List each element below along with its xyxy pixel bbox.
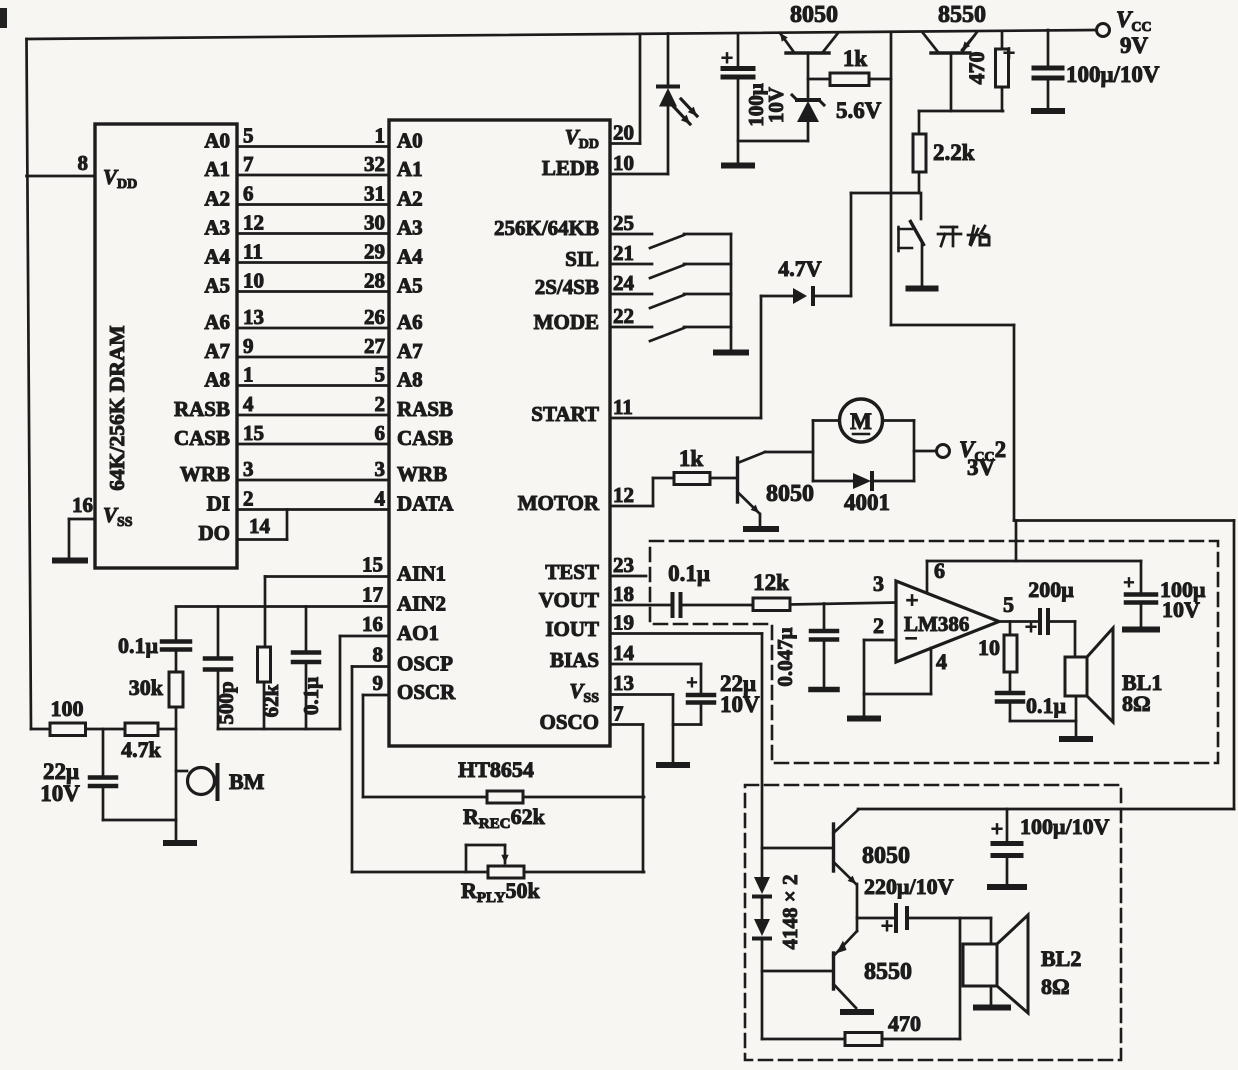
svg-text:3: 3 [873, 571, 884, 596]
svg-text:A3: A3 [397, 216, 423, 240]
svg-text:+: + [721, 45, 734, 70]
svg-text:12: 12 [243, 211, 264, 235]
svg-text:5.6V: 5.6V [836, 98, 882, 123]
svg-text:30k: 30k [129, 675, 164, 700]
svg-text:2: 2 [243, 487, 254, 511]
svg-text:A6: A6 [204, 310, 230, 334]
svg-text:4001: 4001 [844, 490, 890, 515]
svg-text:13: 13 [243, 305, 264, 329]
svg-text:4.7k: 4.7k [121, 737, 162, 762]
svg-text:A2: A2 [204, 187, 230, 211]
svg-text:A5: A5 [204, 274, 230, 298]
svg-text:A2: A2 [397, 187, 423, 211]
svg-text:+: + [1123, 572, 1134, 594]
svg-text:A4: A4 [204, 245, 230, 269]
svg-text:3V: 3V [967, 455, 996, 480]
svg-text:13: 13 [613, 671, 634, 695]
svg-text:28: 28 [364, 269, 385, 293]
svg-text:+: + [881, 913, 894, 938]
svg-text:SIL: SIL [565, 247, 599, 271]
svg-text:32: 32 [364, 152, 385, 176]
svg-text:10: 10 [613, 151, 634, 175]
svg-text:500p: 500p [214, 681, 238, 724]
svg-text:27: 27 [364, 334, 385, 358]
svg-text:2: 2 [873, 613, 884, 638]
svg-text:22: 22 [613, 304, 634, 328]
svg-text:30: 30 [364, 211, 385, 235]
svg-text:A7: A7 [397, 339, 423, 363]
svg-text:CASB: CASB [397, 426, 453, 450]
svg-text:HT8654: HT8654 [458, 757, 534, 782]
svg-text:+: + [686, 672, 697, 694]
svg-text:12k: 12k [753, 570, 789, 595]
svg-text:A7: A7 [204, 339, 230, 363]
svg-text:11: 11 [613, 395, 633, 419]
svg-text:BM: BM [229, 769, 265, 794]
svg-text:256K/64KB: 256K/64KB [494, 216, 599, 240]
svg-text:11: 11 [243, 240, 263, 264]
svg-text:29: 29 [364, 240, 385, 264]
svg-text:8550: 8550 [938, 2, 986, 28]
svg-text:17: 17 [362, 583, 383, 607]
svg-text:+: + [1025, 614, 1038, 639]
svg-text:1: 1 [243, 363, 254, 387]
svg-text:10: 10 [243, 269, 264, 293]
svg-text:AIN1: AIN1 [397, 562, 446, 586]
svg-text:OSCP: OSCP [397, 652, 453, 676]
svg-text:9: 9 [243, 334, 254, 358]
svg-text:LEDB: LEDB [542, 156, 599, 180]
svg-text:START: START [531, 402, 599, 426]
svg-text:10V: 10V [764, 87, 788, 123]
svg-text:TEST: TEST [545, 560, 599, 584]
svg-text:100μ/10V: 100μ/10V [1020, 814, 1110, 839]
svg-text:8050: 8050 [862, 843, 910, 869]
svg-text:A3: A3 [204, 216, 230, 240]
svg-text:8Ω: 8Ω [1041, 974, 1070, 999]
svg-text:DI: DI [207, 492, 230, 516]
svg-text:19: 19 [613, 611, 634, 635]
svg-text:1k: 1k [679, 446, 704, 471]
svg-text:4: 4 [936, 649, 947, 674]
svg-text:BL2: BL2 [1041, 946, 1081, 971]
svg-text:IOUT: IOUT [545, 617, 599, 641]
svg-text:DO: DO [199, 521, 231, 545]
svg-text:8Ω: 8Ω [1122, 691, 1151, 716]
svg-text:18: 18 [613, 582, 634, 606]
svg-text:4148 × 2: 4148 × 2 [778, 875, 802, 950]
svg-text:0.1μ: 0.1μ [118, 633, 159, 658]
svg-text:A0: A0 [397, 129, 423, 153]
svg-text:7: 7 [613, 702, 624, 726]
svg-text:A1: A1 [397, 157, 423, 181]
svg-text:220μ/10V: 220μ/10V [864, 874, 954, 899]
svg-text:DATA: DATA [397, 492, 454, 516]
svg-text:64K/256K DRAM: 64K/256K DRAM [105, 325, 129, 490]
svg-text:6: 6 [243, 182, 254, 206]
svg-text:9V: 9V [1120, 33, 1149, 58]
svg-text:62k: 62k [259, 684, 283, 717]
svg-text:2S/4SB: 2S/4SB [535, 275, 599, 299]
svg-text:23: 23 [613, 553, 634, 577]
svg-text:8550: 8550 [864, 959, 912, 985]
svg-text:A6: A6 [397, 310, 423, 334]
svg-text:AO1: AO1 [397, 621, 439, 645]
svg-text:9: 9 [373, 671, 384, 695]
svg-text:7: 7 [243, 152, 254, 176]
svg-text:6: 6 [375, 421, 386, 445]
svg-text:1k: 1k [843, 46, 868, 71]
svg-text:3: 3 [375, 457, 386, 481]
svg-text:31: 31 [364, 182, 385, 206]
svg-text:470: 470 [964, 52, 989, 85]
svg-text:0.047μ: 0.047μ [773, 627, 797, 686]
svg-text:470: 470 [888, 1011, 921, 1036]
svg-text:CASB: CASB [174, 426, 230, 450]
svg-text:2.2k: 2.2k [933, 140, 975, 165]
svg-text:200μ: 200μ [1028, 577, 1074, 602]
svg-text:8050: 8050 [766, 481, 814, 507]
svg-text:A8: A8 [204, 368, 230, 392]
svg-text:5: 5 [375, 363, 386, 387]
svg-text:AIN2: AIN2 [397, 592, 446, 616]
svg-text:OSCO: OSCO [539, 710, 599, 734]
svg-text:4: 4 [375, 487, 386, 511]
svg-text:25: 25 [613, 211, 634, 235]
svg-text:100μ/10V: 100μ/10V [1066, 62, 1160, 87]
svg-text:+: + [905, 588, 918, 613]
svg-text:16: 16 [362, 612, 383, 636]
svg-text:12: 12 [613, 483, 634, 507]
svg-text:26: 26 [364, 305, 385, 329]
svg-text:15: 15 [243, 421, 264, 445]
svg-text:10V: 10V [720, 692, 760, 717]
svg-text:A5: A5 [397, 274, 423, 298]
svg-text:WRB: WRB [180, 462, 230, 486]
svg-text:MODE: MODE [534, 310, 599, 334]
svg-text:A8: A8 [397, 368, 423, 392]
svg-text:3: 3 [243, 457, 254, 481]
svg-text:4.7V: 4.7V [778, 256, 822, 281]
svg-text:BIAS: BIAS [550, 648, 599, 672]
svg-text:A4: A4 [397, 245, 423, 269]
svg-text:8050: 8050 [790, 2, 838, 28]
svg-text:10: 10 [978, 635, 1000, 660]
svg-text:100: 100 [51, 696, 84, 721]
svg-text:+: + [991, 816, 1004, 841]
svg-text:10V: 10V [40, 781, 80, 806]
svg-text:14: 14 [249, 514, 271, 538]
svg-text:15: 15 [362, 553, 383, 577]
svg-text:WRB: WRB [397, 462, 447, 486]
svg-text:MOTOR: MOTOR [518, 491, 600, 515]
svg-text:5: 5 [243, 124, 254, 148]
svg-text:A1: A1 [204, 157, 230, 181]
svg-text:RASB: RASB [174, 397, 230, 421]
svg-text:8: 8 [78, 151, 89, 175]
svg-text:20: 20 [613, 121, 634, 145]
svg-text:OSCR: OSCR [397, 680, 456, 704]
svg-text:+: + [1003, 40, 1016, 65]
svg-text:16: 16 [72, 493, 93, 517]
svg-text:14: 14 [613, 641, 635, 665]
svg-text:21: 21 [613, 241, 634, 265]
svg-text:8: 8 [373, 643, 384, 667]
svg-text:VOUT: VOUT [539, 588, 599, 612]
svg-text:LM386: LM386 [904, 612, 969, 636]
svg-text:1: 1 [375, 124, 386, 148]
svg-text:0.1μ: 0.1μ [299, 677, 323, 715]
svg-text:5: 5 [1003, 592, 1014, 617]
svg-text:2: 2 [375, 392, 386, 416]
svg-text:RASB: RASB [397, 397, 453, 421]
svg-text:24: 24 [613, 271, 635, 295]
svg-text:0.1μ: 0.1μ [668, 561, 710, 586]
svg-text:M: M [850, 409, 872, 434]
svg-text:10V: 10V [1162, 597, 1200, 622]
svg-text:A0: A0 [204, 129, 230, 153]
svg-text:0.1μ: 0.1μ [1026, 693, 1067, 718]
svg-text:4: 4 [243, 392, 254, 416]
